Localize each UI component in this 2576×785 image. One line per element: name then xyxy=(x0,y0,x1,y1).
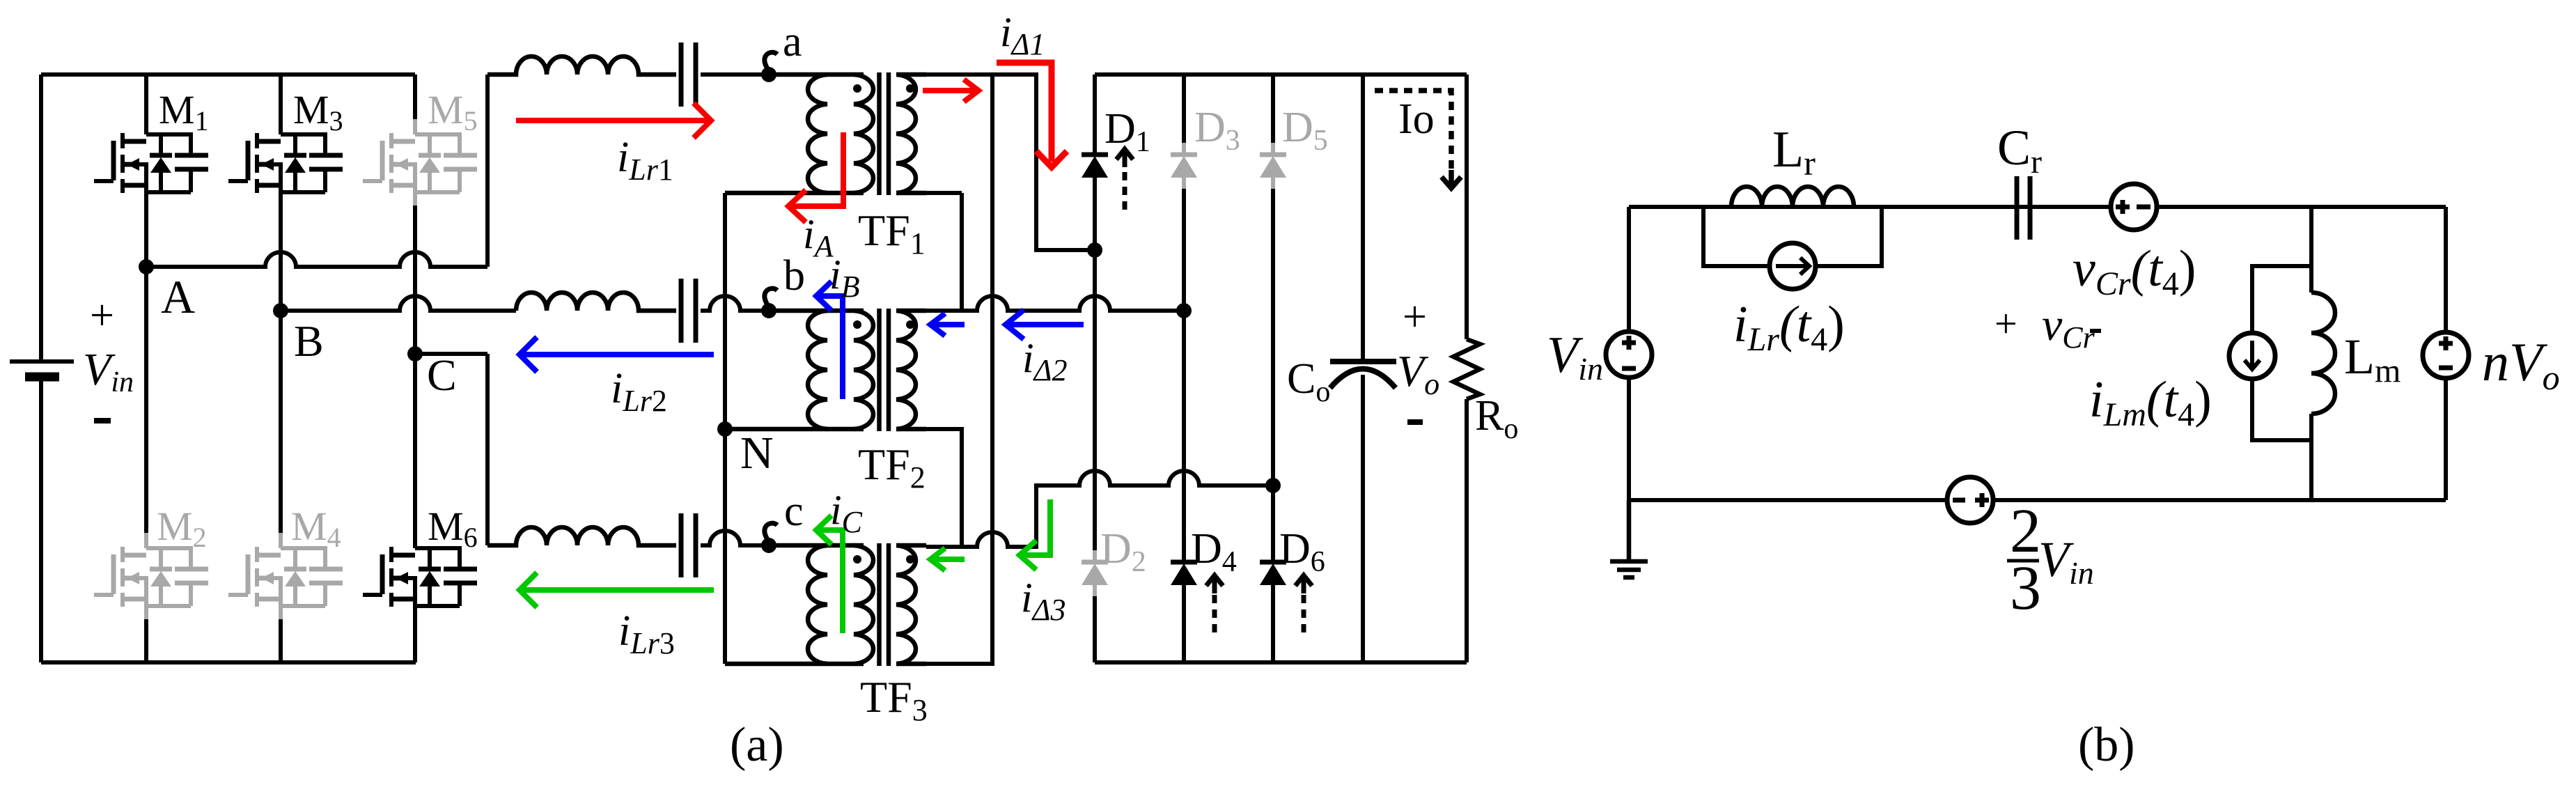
svg-text:3: 3 xyxy=(2010,554,2041,623)
nVo circle plus xyxy=(2439,336,2453,350)
Vin circle plus xyxy=(1622,336,1636,350)
wire Lm branch vertical upper xyxy=(2309,207,2313,293)
svg-text:Io: Io xyxy=(1398,95,1435,143)
svg-text:+: + xyxy=(1403,293,1427,341)
svg-text:Vin: Vin xyxy=(83,344,134,398)
battery Vin positive plate xyxy=(10,359,74,364)
wire TF3 secondary bottom to long riser xyxy=(926,75,992,664)
node c dot xyxy=(761,538,776,553)
wire Lr parallel loop xyxy=(1703,207,1882,266)
node a dot xyxy=(761,67,776,82)
svg-text:Ro: Ro xyxy=(1475,392,1518,445)
wire node B line with hop over leg C xyxy=(281,296,516,311)
resistor Ro xyxy=(1453,339,1480,399)
wire TF2 secondary top line with hops xyxy=(926,296,1184,311)
svg-text:vCr: vCr xyxy=(2042,300,2095,355)
battery Vin negative plate xyxy=(25,373,59,382)
dashed arrow at D1 xyxy=(1116,149,1133,210)
voltage source nVo circle xyxy=(2423,332,2469,378)
svg-text:iLr(t4): iLr(t4) xyxy=(1733,296,1845,358)
svg-text:(b): (b) xyxy=(2078,718,2135,772)
label - of Vo xyxy=(1407,419,1423,425)
current source iLr arrow xyxy=(1776,258,1809,274)
arrow TF3 secondary current xyxy=(930,548,965,570)
svg-text:iΔ3: iΔ3 xyxy=(1021,575,1066,627)
svg-text:iLr3: iLr3 xyxy=(618,607,675,660)
transformer TF1 xyxy=(725,72,926,195)
wire battery left vertical bottom xyxy=(39,377,43,662)
inductor Lr (b) xyxy=(1731,187,1854,207)
wire Co leg lower xyxy=(1361,375,1365,662)
wire iLm loop bottom xyxy=(2252,378,2311,440)
wire cap2 to node b with hop over N riser xyxy=(701,296,769,311)
svg-text:M3: M3 xyxy=(293,87,343,137)
arrow iA xyxy=(788,132,843,222)
capacitor Cr (b) xyxy=(2017,176,2030,240)
capacitor Co top plate xyxy=(1330,359,1396,364)
wire TF3 secondary top line with hop xyxy=(926,471,1273,547)
dashed arrow Io xyxy=(1375,91,1461,188)
svg-text:iLr1: iLr1 xyxy=(617,134,673,187)
voltage source vCr circle xyxy=(2111,184,2157,230)
wire leg B upper xyxy=(279,75,283,311)
svg-text:C: C xyxy=(427,350,457,400)
inductor Lr3 xyxy=(487,527,676,545)
svg-text:Lr: Lr xyxy=(1772,121,1816,182)
wire delta riser TF1 bottom xyxy=(960,193,964,311)
mosfet M2 xyxy=(94,533,208,619)
svg-text:vCr(t4): vCr(t4) xyxy=(2072,240,2196,302)
wire b bottom rail left xyxy=(1629,498,1948,502)
inductor Lr2 xyxy=(516,293,676,311)
wire bottom rail inverter xyxy=(41,660,416,664)
wire leg1 xyxy=(1093,75,1097,662)
svg-text:iLr2: iLr2 xyxy=(611,365,667,418)
svg-text:(a): (a) xyxy=(730,718,784,772)
wire leg C lower xyxy=(413,354,417,662)
wire top rail xyxy=(41,72,415,77)
capacitor Cr2 xyxy=(681,279,696,343)
svg-text:Lm: Lm xyxy=(2344,329,2401,389)
svg-text:+: + xyxy=(90,292,114,339)
mosfet M6 xyxy=(363,533,477,619)
svg-text:M2: M2 xyxy=(157,504,207,553)
arrow i-delta-3 xyxy=(1020,499,1050,570)
wire battery left vertical top xyxy=(39,75,43,362)
nVo circle minus xyxy=(2439,366,2453,371)
svg-text:D3: D3 xyxy=(1194,104,1240,157)
svg-text:TF3: TF3 xyxy=(860,672,928,727)
wire nVo branch lower xyxy=(2444,378,2448,500)
2/3Vin circle minus xyxy=(1953,498,1965,503)
node a hook xyxy=(765,52,777,71)
capacitor Cr3 xyxy=(681,513,696,577)
wire TF1 secondary top to leg1 xyxy=(926,75,1095,250)
svg-text:iLm(t4): iLm(t4) xyxy=(2089,371,2212,433)
current source iLr circle xyxy=(1770,243,1816,289)
wire Vin branch (b) xyxy=(1627,207,1631,334)
wire Ro leg lower xyxy=(1465,399,1469,662)
svg-text:N: N xyxy=(740,428,774,479)
node A dot xyxy=(139,259,154,274)
wire leg A lower xyxy=(144,267,148,662)
arrow i-delta-2 xyxy=(1006,310,1084,339)
svg-text:a: a xyxy=(783,18,802,65)
mosfet M3 xyxy=(228,119,343,205)
svg-text:iB: iB xyxy=(829,251,860,304)
wire TF2 secondary bottom riser xyxy=(926,429,962,547)
wire N riser xyxy=(723,193,727,664)
svg-text:Vo: Vo xyxy=(1397,346,1439,401)
mosfet M1 xyxy=(94,119,208,205)
wire Vin circle to bottom rail xyxy=(1627,378,1631,500)
arrow iLr2 xyxy=(520,337,714,372)
diode D6 xyxy=(1260,550,1286,596)
node c hook xyxy=(765,523,777,542)
wire cap1 to node a xyxy=(701,72,769,77)
svg-text:M4: M4 xyxy=(291,504,341,553)
wire leg2 xyxy=(1182,75,1186,662)
inductor Lr1 xyxy=(487,56,676,75)
arrow iB xyxy=(816,281,843,399)
node B dot xyxy=(273,303,288,318)
svg-text:D6: D6 xyxy=(1279,525,1325,578)
diode D1 xyxy=(1082,143,1108,189)
arrow TF1 secondary current xyxy=(923,79,978,102)
node leg3 dot xyxy=(1265,478,1281,493)
wire TF1 secondary bottom stub xyxy=(926,191,962,195)
wire Ro leg upper xyxy=(1465,75,1469,339)
wire leg A upper xyxy=(144,75,148,267)
wire cap3 to node c with hop over N riser xyxy=(701,531,769,545)
voltage source Vin circle (b) xyxy=(1606,332,1652,378)
svg-text:M5: M5 xyxy=(428,87,478,137)
svg-text:nVo: nVo xyxy=(2482,332,2560,397)
svg-text:M1: M1 xyxy=(159,87,209,137)
wire phase1 riser xyxy=(485,75,490,267)
svg-text:D5: D5 xyxy=(1282,104,1328,157)
wire iLm loop top xyxy=(2252,266,2311,334)
wire b bottom rail right xyxy=(1992,498,2446,502)
dashed arrow at D4 xyxy=(1206,575,1223,632)
capacitor Co curved plate xyxy=(1330,369,1396,389)
node b dot xyxy=(761,303,776,318)
svg-text:c: c xyxy=(784,488,804,535)
transformer TF2 xyxy=(725,309,926,431)
arrow iLr3 xyxy=(520,573,714,607)
wire rectifier bottom rail xyxy=(1095,660,1467,664)
inductor Lm xyxy=(2311,293,2335,414)
wire Co leg upper xyxy=(1361,75,1365,359)
mosfet M4 xyxy=(228,533,343,619)
diode D5 xyxy=(1260,143,1286,189)
node b hook xyxy=(765,288,777,307)
wire nVo branch upper xyxy=(2444,207,2448,333)
svg-text:A: A xyxy=(161,270,195,323)
vCr circle minus xyxy=(2137,205,2150,210)
svg-text:D2: D2 xyxy=(1100,525,1146,578)
arrow iLr1 xyxy=(516,103,711,138)
capacitor Cr1 xyxy=(681,42,696,107)
wire phase3 dropper xyxy=(485,354,490,545)
label - of Vin xyxy=(94,418,111,423)
arrow TF2 secondary current xyxy=(930,313,965,336)
node C dot xyxy=(407,346,423,362)
ground symbol xyxy=(1610,500,1648,577)
wire rectifier top rail xyxy=(1095,72,1467,77)
wire leg3 xyxy=(1271,75,1275,662)
svg-text:Vin: Vin xyxy=(2038,531,2094,591)
svg-text:b: b xyxy=(783,252,805,300)
svg-text:Co: Co xyxy=(1287,355,1330,408)
svg-text:iΔ2: iΔ2 xyxy=(1022,335,1068,387)
diode D2 xyxy=(1082,550,1108,596)
svg-text:TF1: TF1 xyxy=(858,205,926,261)
2/3Vin circle plus xyxy=(1975,493,1989,507)
svg-text:TF2: TF2 xyxy=(858,440,926,495)
node leg1 dot xyxy=(1087,242,1102,258)
arrow iC xyxy=(816,515,843,633)
current source iLm arrow xyxy=(2245,341,2260,369)
Vin circle minus xyxy=(1622,366,1636,371)
wire node A line with hops over legs B and C xyxy=(146,252,487,267)
svg-text:Cr: Cr xyxy=(1997,120,2042,180)
node leg2 dot xyxy=(1176,303,1192,318)
dashed arrow at D6 xyxy=(1295,575,1312,632)
current source iLm circle xyxy=(2229,333,2275,379)
svg-text:D4: D4 xyxy=(1191,525,1237,578)
wire b top line xyxy=(1629,205,2446,209)
voltage source 2/3 Vin circle xyxy=(1947,477,1993,523)
diode D4 xyxy=(1171,550,1197,596)
wire leg B lower xyxy=(279,311,283,662)
svg-text:+: + xyxy=(1995,301,2017,346)
svg-text:Vin: Vin xyxy=(1547,327,1603,387)
transformer TF3 xyxy=(725,543,926,666)
wire Lm branch vertical lower xyxy=(2309,414,2313,500)
node N dot xyxy=(717,421,733,437)
vCr circle plus xyxy=(2116,200,2130,214)
arrow i-delta-1 xyxy=(997,63,1067,167)
svg-text:iC: iC xyxy=(830,487,863,539)
svg-text:B: B xyxy=(294,316,324,366)
svg-text:M6: M6 xyxy=(428,504,478,553)
wire leg C upper xyxy=(413,75,417,354)
mosfet M5 xyxy=(363,119,477,205)
diode D3 xyxy=(1171,143,1197,189)
wire node C line xyxy=(415,352,487,356)
svg-text:iΔ1: iΔ1 xyxy=(1000,9,1045,61)
